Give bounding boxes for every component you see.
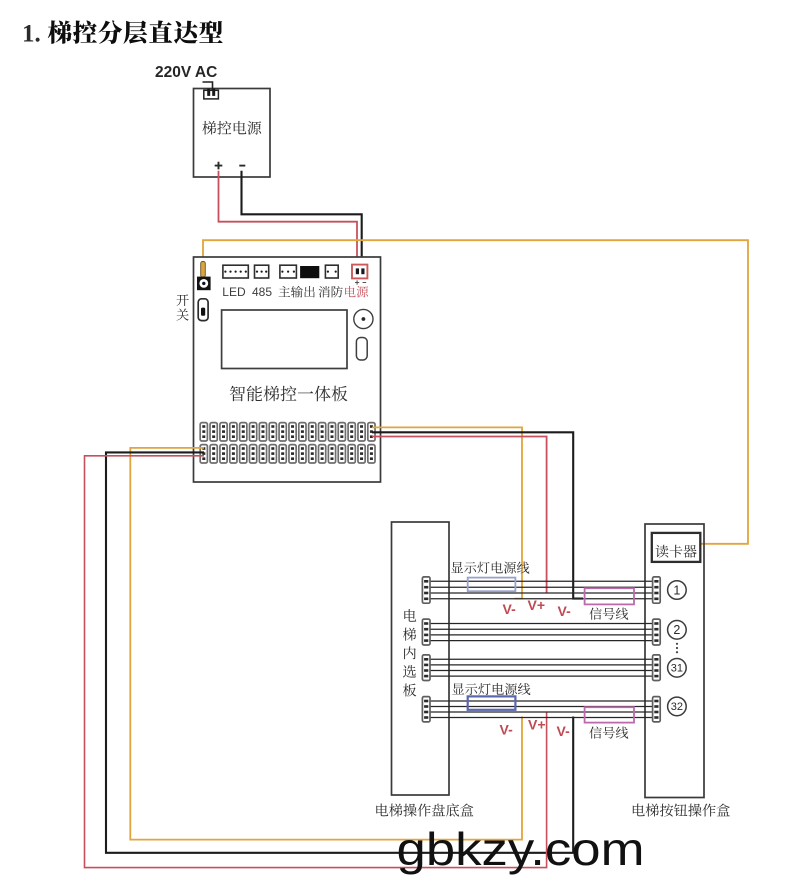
antenna ANT1 xyxy=(201,262,206,278)
connector 主输出 (3 pin) xyxy=(280,265,297,278)
label 显示灯电源线 (row4) xyxy=(452,683,530,695)
label 智能梯控一体板 xyxy=(230,386,348,402)
label 开关 (switch) xyxy=(176,294,188,320)
wire yellow: TB2 loop to ribbon row4 xyxy=(130,448,522,840)
relay block (solid) xyxy=(300,266,319,278)
connector P1 on 电梯内选板 xyxy=(422,577,430,603)
terminal block TB2 (bottom row, 18 terminals) xyxy=(200,445,375,463)
ribbon cable row 1 (4 wires) xyxy=(431,581,654,599)
svg-text:gbkzy.com: gbkzy.com xyxy=(397,823,645,875)
svg-text:1: 1 xyxy=(673,583,680,597)
ribbon cable row 4 (4 wires) xyxy=(431,701,654,718)
label + - under J2 xyxy=(355,280,366,284)
label 电梯按钮操作盒 xyxy=(633,804,730,817)
connector P2 on 电梯内选板 xyxy=(422,619,430,645)
label 显示灯电源线 (row1) xyxy=(451,561,529,573)
svg-text:220V AC: 220V AC xyxy=(155,64,217,81)
switch SW1 xyxy=(198,299,208,321)
wire black: TB1 to ribbon row1 xyxy=(372,432,583,598)
connector floor header row 2 on button box xyxy=(653,619,661,645)
display LCD1 xyxy=(222,310,347,369)
connector 电源 J2 (2 pin, red) xyxy=(352,265,367,279)
wire red: PS1 + to board power connector xyxy=(219,171,358,268)
ellipsis between floor 2 and 31 xyxy=(676,643,678,654)
power supply PS1 梯控电源 xyxy=(194,89,271,178)
wire red: TB2 loop to ribbon row4 xyxy=(85,456,547,868)
connector floor header row 1 on button box xyxy=(653,577,661,603)
highlight box: display power wires (row1) xyxy=(468,578,516,592)
controller board U1 智能梯控一体板 xyxy=(194,257,381,482)
button S1 xyxy=(356,338,367,361)
wire black: TB2 loop to ribbon row4 xyxy=(106,452,573,852)
terminal - of PS1 xyxy=(239,165,245,167)
svg-text:2: 2 xyxy=(673,623,680,637)
svg-text:V-: V- xyxy=(558,603,572,619)
svg-text:V-: V- xyxy=(500,722,514,738)
connector P4 on 电梯内选板 xyxy=(422,697,430,722)
node floor 32 (circled) xyxy=(668,697,687,716)
svg-text:LED: LED xyxy=(222,285,246,299)
ribbon cable row 3 (4 wires) xyxy=(431,659,654,676)
terminal + of PS1 xyxy=(215,162,223,170)
svg-text:485: 485 xyxy=(252,285,272,299)
connector P3 on 电梯内选板 xyxy=(422,655,430,681)
wire yellow: TB1 to ribbon row1 V- xyxy=(372,427,522,598)
svg-text:31: 31 xyxy=(671,663,683,675)
highlight box: signal wire (row4) xyxy=(585,707,634,722)
highlight box: signal wire (row1) xyxy=(585,588,634,604)
buzzer BZ1 xyxy=(354,309,373,328)
svg-text:V-: V- xyxy=(503,601,517,617)
wire red: TB1 to ribbon row1 V+ xyxy=(372,437,547,594)
enclosure 电梯按钮操作盒 (right box) xyxy=(645,524,704,798)
node floor 31 (circled) xyxy=(668,659,687,678)
label 梯控电源 xyxy=(202,121,261,135)
connector LED (5 pin) xyxy=(223,265,248,278)
label 信号线 (row4) xyxy=(589,726,628,738)
terminal block TB1 (top row, 18 terminals) xyxy=(200,423,375,441)
svg-text:32: 32 xyxy=(671,701,683,713)
card reader U2 读卡器 xyxy=(652,533,701,562)
connector 485 (3 pin) xyxy=(255,265,269,278)
connector 消防 (2 pin) xyxy=(325,265,338,278)
highlight box: display power wires (row4) xyxy=(468,696,516,709)
svg-text:V+: V+ xyxy=(528,597,546,613)
svg-text:V-: V- xyxy=(557,723,571,739)
connector floor header row 3 on button box xyxy=(653,655,661,681)
wire yellow: board to card reader 读卡器 xyxy=(203,240,748,544)
svg-text:1.: 1. xyxy=(22,21,41,48)
svg-text:V+: V+ xyxy=(528,717,546,733)
wire black: PS1 - to board power connector xyxy=(242,171,362,268)
AC input connector J1 xyxy=(203,82,219,99)
node floor 1 (circled) xyxy=(668,581,687,600)
enclosure 电梯操作盘底盒 (left box) xyxy=(392,522,450,795)
node floor 2 (circled) xyxy=(668,621,687,640)
label 电梯操作盘底盒 xyxy=(376,803,473,816)
ribbon cable row 2 (4 wires) xyxy=(431,624,654,641)
label 电梯内选板 (vertical) xyxy=(403,609,416,696)
label 信号线 (row1) xyxy=(589,607,628,619)
connector floor header row 4 on button box xyxy=(653,697,661,722)
